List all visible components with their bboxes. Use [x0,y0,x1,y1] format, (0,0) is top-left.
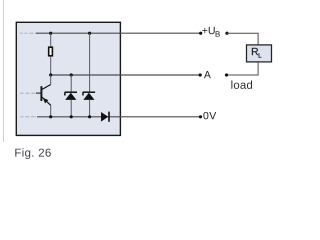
diode D1 [101,112,109,122]
node: junction resistor / A [49,73,52,76]
label 0V [203,112,216,119]
sensor box [16,22,120,135]
label RL [252,48,258,55]
wire: Z1 bottom lead [70,100,72,117]
node: junction Z1 / A [70,73,73,76]
wire: 0V line internal dashes [20,116,35,118]
transistor Q1 [41,85,50,106]
node: junction Z1 / 0V [70,115,73,118]
wire: 0V line [37,116,201,118]
node: junction resistor / +UB [49,32,52,35]
wire: Q1 collector to 0V line [50,105,52,117]
resistor R [49,47,53,56]
wire: resistor bottom lead [50,57,52,75]
node: A terminal [199,73,202,76]
wire: resistor top lead [50,33,52,47]
node: junction Q1 / 0V [49,115,52,118]
node: 0V terminal [199,115,202,118]
wire: +UB line internal dashes [20,32,34,34]
node: +UB terminal [199,32,202,35]
zener diode Z1 [65,92,77,100]
transistor Q1 base dashes [20,92,35,94]
page rule (left) [3,0,5,142]
wire: Z1 top lead [70,75,72,92]
zener diode Z2 [83,92,95,100]
label load [231,80,252,88]
wire: Z2 top lead [89,33,91,92]
node: junction Z2 / 0V [88,115,91,118]
label A [204,71,211,78]
wire: load branch top [227,33,258,45]
wire: +UB line [36,32,201,34]
wire: Z2 bottom lead [89,100,91,117]
wire: load branch bottom [227,62,259,75]
load resistor RL [247,45,272,62]
label +UB [202,27,214,34]
wire: Q1 emitter to A node [50,75,52,85]
transistor Q1 base lead [36,92,41,94]
label Fig. 26 [15,148,51,159]
wire: A line [51,74,201,76]
node: load branch tap on +UB [225,32,228,35]
node: load branch tap on A [225,73,228,76]
node: junction Z2 / +UB [88,32,91,35]
